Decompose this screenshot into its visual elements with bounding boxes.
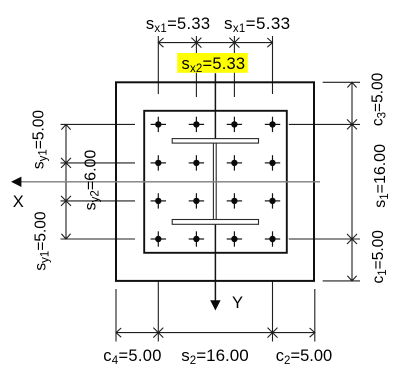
bolt row 2 col 2 bbox=[189, 155, 204, 170]
highlight box sx2 bbox=[177, 53, 248, 73]
extension line bolt column 4 (top) bbox=[272, 36, 274, 94]
extension line bolt column 1 (top) bbox=[157, 36, 159, 94]
extension line plate left edge (bottom) bbox=[115, 289, 117, 342]
bolt row 2 col 3 bbox=[227, 155, 242, 170]
extension line bolt column 1 (bottom) bbox=[157, 282, 159, 342]
bolt row 3 col 3 bbox=[227, 193, 242, 208]
bolt row 4 col 2 bbox=[189, 231, 204, 246]
bolt row 3 col 1 bbox=[151, 193, 166, 208]
bolt row 1 col 1 bbox=[151, 117, 166, 132]
bolt row 3 col 4 bbox=[265, 193, 280, 208]
extension line plate right edge (bottom) bbox=[314, 289, 316, 342]
bolt row 3 col 2 bbox=[189, 193, 204, 208]
svg-text:X: X bbox=[13, 193, 24, 211]
bolt row 4 col 1 bbox=[151, 231, 166, 246]
extension line bolt column 2 (top) bbox=[195, 36, 197, 97]
X axis line bbox=[19, 181, 320, 183]
bolt row 4 col 4 bbox=[265, 231, 280, 246]
dimension line c3/s1/c1 (right) bbox=[351, 82, 353, 281]
bolt row 2 col 1 bbox=[151, 155, 166, 170]
inner bolt-group rectangle bbox=[144, 111, 287, 253]
bolt row 2 col 4 bbox=[265, 155, 280, 170]
X axis arrowhead bbox=[11, 177, 21, 187]
extension line plate bottom edge (right) bbox=[323, 280, 360, 282]
dimension line sx (top) bbox=[158, 42, 272, 44]
svg-text:Y: Y bbox=[232, 294, 243, 312]
extension line bolt row 1 (right) bbox=[289, 123, 360, 125]
extension line bolt row 1 (left) bbox=[61, 123, 136, 125]
I-beam web bbox=[213, 143, 216, 220]
extension line bolt row 4 (left) bbox=[61, 238, 136, 240]
outer base plate bbox=[116, 82, 314, 281]
dimension line sy (left) bbox=[65, 124, 67, 239]
extension line bolt column 3 (top) bbox=[233, 36, 235, 97]
bolt row 1 col 2 bbox=[189, 117, 204, 132]
extension line bolt column 4 (bottom) bbox=[272, 282, 274, 342]
I-beam bottom flange bbox=[172, 220, 258, 225]
Y axis line bbox=[214, 73, 216, 302]
bolt row 4 col 3 bbox=[227, 231, 242, 246]
bolt row 1 col 3 bbox=[227, 117, 242, 132]
extension line plate top edge (right) bbox=[323, 81, 360, 83]
extension line bolt row 3 (left) bbox=[61, 200, 136, 202]
dimension line c4/s2/c2 (bottom) bbox=[116, 332, 315, 334]
I-beam top flange bbox=[172, 139, 258, 144]
extension line bolt row 4 (right) bbox=[289, 238, 360, 240]
bolt row 1 col 4 bbox=[265, 117, 280, 132]
Y axis arrowhead bbox=[210, 300, 220, 310]
extension line bolt row 2 (left) bbox=[61, 162, 136, 164]
